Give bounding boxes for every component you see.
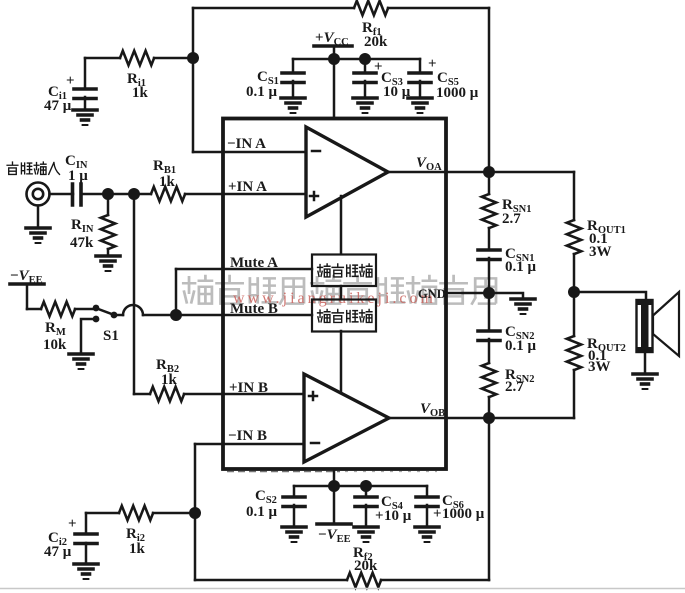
resistor ROUT2 xyxy=(567,292,626,418)
svg-text:0.1 μ: 0.1 μ xyxy=(505,338,537,354)
svg-text:10 μ: 10 μ xyxy=(384,508,412,524)
svg-text:+IN A: +IN A xyxy=(228,179,267,195)
resistor RSN1 xyxy=(482,172,532,228)
power +VCC xyxy=(314,30,352,118)
switch S1 xyxy=(93,305,119,344)
svg-text:47 μ: 47 μ xyxy=(44,98,72,114)
ground CS4 xyxy=(354,527,378,542)
wire switch ground branch xyxy=(81,319,96,354)
capacitor Ci1 xyxy=(44,58,96,114)
wire Mute A drop xyxy=(175,269,178,315)
watermark company text xyxy=(183,276,496,304)
svg-text:2.7: 2.7 xyxy=(502,211,521,227)
control block U3 xyxy=(312,300,376,332)
wire +IN A xyxy=(185,193,306,196)
capacitor Ci2 xyxy=(44,513,97,564)
smudge under IC bottom edge xyxy=(227,470,340,473)
svg-text:10k: 10k xyxy=(43,337,67,353)
svg-text:+: + xyxy=(68,516,77,532)
resistor RB2 xyxy=(150,357,184,401)
wire -IN B left drop xyxy=(194,444,197,513)
wire -VEE to RM xyxy=(27,308,41,311)
wire Ri2 to junction xyxy=(153,512,195,515)
node mute junction xyxy=(170,309,182,321)
power -VEE bottom pin xyxy=(317,469,351,545)
ground speaker xyxy=(633,374,657,389)
node Ri1 junction xyxy=(187,52,199,64)
wire Mute B xyxy=(176,314,312,317)
op-amp U1A xyxy=(306,127,388,217)
wire top feedback rail right xyxy=(388,7,489,10)
resistor RSN2 xyxy=(482,363,535,418)
wire hop to mute node xyxy=(143,314,176,317)
svg-text:S1: S1 xyxy=(103,328,119,344)
svg-text:RM: RM xyxy=(45,320,66,338)
wire Ri1 to junction xyxy=(154,57,193,60)
svg-text:1k: 1k xyxy=(161,372,178,388)
control block U2 xyxy=(312,255,376,287)
node VOB xyxy=(483,412,495,424)
node CS4 junction xyxy=(360,480,372,492)
node VOA xyxy=(483,166,495,178)
capacitor CIN xyxy=(65,153,88,205)
wire VOB output xyxy=(389,417,574,420)
node RIN junction xyxy=(102,188,114,200)
ground CS1 xyxy=(281,98,305,113)
node Ri2 junction xyxy=(189,507,201,519)
resistor Rf2 xyxy=(347,545,381,587)
svg-text:RIN: RIN xyxy=(71,217,94,235)
ground RIN xyxy=(96,256,120,271)
ground switch xyxy=(69,354,93,369)
wire CIN to RB1 xyxy=(81,193,151,196)
wire control box to op-amp B xyxy=(340,331,343,392)
wire -IN B xyxy=(195,443,304,446)
node speaker junction xyxy=(568,286,580,298)
wire -IN A xyxy=(193,151,306,154)
resistor RIN xyxy=(70,194,115,256)
bottom page border line xyxy=(0,588,685,590)
wire Ci2 to Ri2 xyxy=(86,512,119,515)
svg-text:47k: 47k xyxy=(70,235,94,251)
svg-text:2.7: 2.7 xyxy=(505,379,524,395)
svg-text:+: + xyxy=(375,508,384,524)
svg-text:1000 μ: 1000 μ xyxy=(436,85,479,101)
wire connector to CIN xyxy=(50,193,74,196)
wire to speaker xyxy=(574,292,646,301)
svg-text:47 μ: 47 μ xyxy=(44,544,72,560)
svg-text:1k: 1k xyxy=(129,541,146,557)
ground CS5 xyxy=(408,98,432,113)
capacitor CSN1 xyxy=(478,228,537,293)
svg-text:GND: GND xyxy=(418,287,446,301)
capacitor CS6 xyxy=(416,486,485,527)
svg-text:0.1 μ: 0.1 μ xyxy=(246,504,278,520)
wire to mid ground xyxy=(489,293,523,299)
svg-text:20k: 20k xyxy=(364,34,388,50)
svg-text:−IN B: −IN B xyxy=(228,428,267,444)
ground connector xyxy=(26,228,50,243)
svg-text:0.1 μ: 0.1 μ xyxy=(505,259,537,275)
node +IN B branch junction xyxy=(128,188,140,200)
capacitor CS4 xyxy=(355,486,412,527)
svg-text:−VEE: −VEE xyxy=(318,527,351,545)
wire right drop to VOA xyxy=(488,8,491,172)
svg-text:VOB: VOB xyxy=(420,401,445,419)
resistor RM xyxy=(41,302,75,353)
resistor ROUT1 xyxy=(567,172,626,292)
ground CS3 xyxy=(353,98,377,113)
svg-text:1k: 1k xyxy=(132,85,149,101)
resistor Rf1 xyxy=(354,1,388,50)
node VCC rail junction xyxy=(328,53,340,65)
wire +IN B feed to RB2 xyxy=(134,393,150,396)
wire +IN B xyxy=(184,393,304,396)
IC U1 body xyxy=(223,119,446,470)
power -VEE top xyxy=(10,268,44,309)
connector J1 xyxy=(27,183,50,206)
wire feedback B drop xyxy=(194,513,197,580)
svg-text:20k: 20k xyxy=(354,558,378,574)
wire speaker ground stub xyxy=(644,351,647,374)
capacitor CSN2 xyxy=(478,293,537,363)
wire bottom feedback rail left xyxy=(195,579,347,582)
svg-text:+: + xyxy=(433,506,442,522)
svg-text:1000 μ: 1000 μ xyxy=(442,506,485,522)
svg-text:−IN A: −IN A xyxy=(227,136,266,152)
wire left drop to -IN A xyxy=(192,8,195,152)
wire switch to mute node xyxy=(114,314,123,317)
wire feedback B rise to VOB xyxy=(488,418,491,580)
op-amp U1B xyxy=(304,374,389,462)
wire VEE bypass rail xyxy=(294,485,427,488)
svg-text:+: + xyxy=(428,56,437,72)
ground CS6 xyxy=(415,527,439,542)
wire Mute A xyxy=(176,268,312,271)
capacitor CS3 xyxy=(354,59,411,100)
wire Ci1 to Ri1 xyxy=(85,57,120,60)
svg-text:VOA: VOA xyxy=(416,155,442,173)
svg-text:1 μ: 1 μ xyxy=(68,168,88,184)
ground CS2 xyxy=(282,527,306,542)
wire GND pin xyxy=(446,292,489,295)
wire bottom feedback rail right xyxy=(381,579,489,582)
wire control box to control box xyxy=(340,286,343,299)
wire VCC bypass rail xyxy=(293,58,420,61)
speaker SP xyxy=(637,292,680,356)
svg-text:1k: 1k xyxy=(159,174,176,190)
wire VOA output xyxy=(388,171,574,174)
capacitor CS5 xyxy=(409,56,479,101)
audio input label xyxy=(7,162,59,174)
resistor Ri2 xyxy=(119,506,153,557)
wire +IN B feed vertical xyxy=(133,194,136,394)
ground Ci1 xyxy=(73,110,97,125)
node VEE rail junction xyxy=(328,480,340,492)
resistor Ri1 xyxy=(120,51,154,101)
wire connector ground stub xyxy=(37,206,40,229)
svg-text:+: + xyxy=(66,73,75,89)
node snubber mid GND xyxy=(483,287,495,299)
wire op-amp A to control box xyxy=(340,196,343,254)
wire hop over vertical xyxy=(123,305,143,315)
wire RM to switch xyxy=(75,308,94,311)
ground snubber mid xyxy=(511,299,535,314)
svg-text:0.1 μ: 0.1 μ xyxy=(246,84,278,100)
svg-text:3W: 3W xyxy=(588,359,611,375)
ground Ci2 xyxy=(74,564,98,579)
wire top feedback rail left xyxy=(193,7,354,10)
node CS3 junction xyxy=(359,53,371,65)
resistor RB1 xyxy=(151,158,185,201)
svg-text:3W: 3W xyxy=(589,244,612,260)
capacitor CS1 xyxy=(246,59,304,100)
capacitor CS2 xyxy=(246,486,305,527)
